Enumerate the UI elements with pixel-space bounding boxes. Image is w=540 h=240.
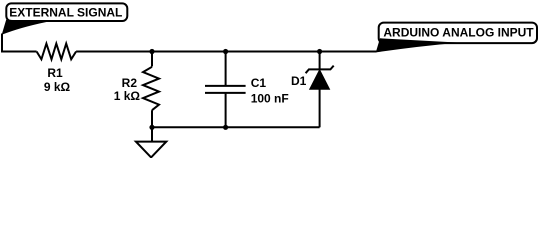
svg-text:100 nF: 100 nF	[251, 92, 289, 106]
wire: R2 top lead	[151, 52, 153, 67]
capacitor C1	[205, 52, 246, 128]
diode D1 (zener)	[306, 52, 334, 128]
ground	[136, 127, 166, 157]
svg-text:R2: R2	[122, 76, 138, 90]
node: junction dot top of R2	[149, 49, 154, 54]
svg-text:1 kΩ: 1 kΩ	[114, 89, 141, 103]
svg-text:D1: D1	[291, 74, 307, 88]
node: junction dot bottom of C1	[223, 125, 228, 130]
wire: top rail from R1 to arduino tail	[76, 51, 376, 53]
node ARDUINO ANALOG INPUT: balloon box	[379, 23, 537, 43]
node: junction dot bottom ground	[149, 125, 154, 130]
node: junction dot top of C1	[223, 49, 228, 54]
wire: top net from EXTERNAL SIGNAL to R1	[2, 34, 37, 52]
resistor R1	[37, 44, 77, 60]
node: junction dot top of D1	[317, 49, 322, 54]
svg-text:C1: C1	[251, 76, 267, 90]
svg-text:R1: R1	[47, 66, 63, 80]
svg-text:EXTERNAL SIGNAL: EXTERNAL SIGNAL	[9, 5, 122, 19]
resistor R2	[143, 67, 159, 110]
svg-text:ARDUINO ANALOG INPUT: ARDUINO ANALOG INPUT	[383, 26, 534, 40]
node EXTERNAL SIGNAL: balloon tail	[2, 20, 47, 35]
svg-text:9 kΩ: 9 kΩ	[44, 80, 71, 94]
node EXTERNAL SIGNAL: balloon box	[6, 3, 127, 21]
wire: R2 bottom lead	[151, 110, 153, 127]
wire: bottom rail	[152, 126, 320, 128]
node ARDUINO ANALOG INPUT: balloon tail	[376, 38, 459, 52]
